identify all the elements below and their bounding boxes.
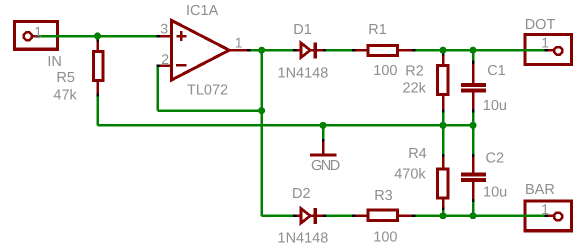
svg-text:10u: 10u (483, 185, 507, 201)
svg-text:470k: 470k (394, 167, 426, 183)
svg-text:DOT: DOT (525, 17, 556, 33)
svg-text:100: 100 (373, 229, 397, 245)
svg-text:1: 1 (34, 23, 42, 39)
svg-text:R4: R4 (408, 146, 427, 162)
svg-text:100: 100 (373, 63, 397, 79)
svg-text:1N4148: 1N4148 (278, 66, 329, 82)
svg-text:10u: 10u (483, 98, 507, 114)
svg-text:IC1A: IC1A (186, 3, 219, 19)
svg-text:1: 1 (541, 201, 549, 217)
svg-text:IN: IN (47, 54, 62, 70)
svg-text:R1: R1 (368, 22, 387, 38)
svg-text:3: 3 (160, 20, 168, 36)
svg-text:R3: R3 (374, 188, 393, 204)
svg-text:C1: C1 (487, 63, 506, 79)
svg-text:BAR: BAR (525, 182, 555, 198)
svg-text:22k: 22k (403, 81, 427, 97)
svg-text:R5: R5 (56, 70, 75, 86)
svg-text:2: 2 (161, 51, 169, 67)
svg-text:TL072: TL072 (187, 83, 228, 99)
svg-text:GND: GND (311, 158, 340, 174)
svg-text:1: 1 (541, 35, 549, 51)
svg-text:R2: R2 (405, 64, 424, 80)
svg-text:1: 1 (235, 34, 243, 50)
svg-text:D2: D2 (292, 186, 311, 202)
svg-text:47k: 47k (53, 88, 77, 104)
svg-text:D1: D1 (293, 22, 312, 38)
svg-text:1N4148: 1N4148 (278, 231, 329, 247)
svg-text:C2: C2 (486, 150, 505, 166)
